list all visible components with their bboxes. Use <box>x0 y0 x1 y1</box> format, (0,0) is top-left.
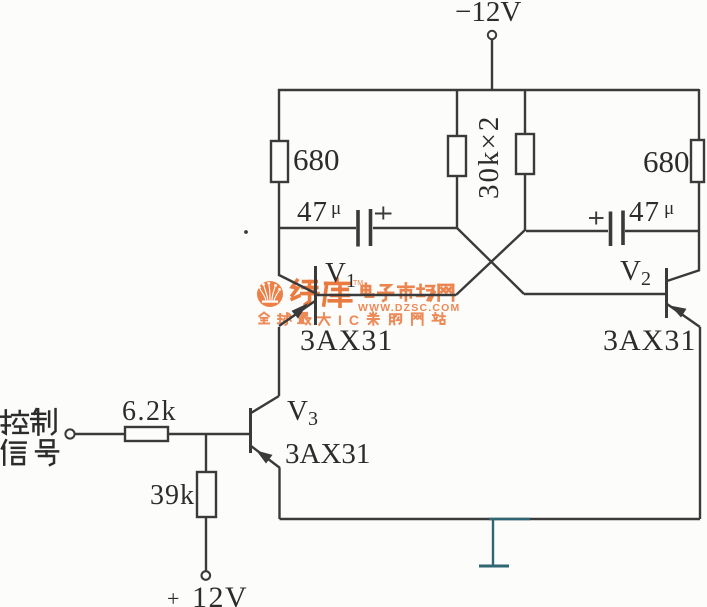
wire right vertical upper <box>698 89 700 140</box>
纬 <box>292 280 318 304</box>
wire V3 emitter down <box>278 468 280 519</box>
站 <box>433 313 445 324</box>
购 <box>390 314 401 324</box>
svg-text:+: + <box>167 586 179 607</box>
transistor V3 3AX31 <box>251 396 281 468</box>
wire 39k to +12V <box>205 517 207 571</box>
电 <box>362 284 373 297</box>
wire -12V feed <box>491 40 493 91</box>
大 <box>318 313 330 325</box>
wire right vertical mid <box>698 182 700 270</box>
terminal input <box>65 429 74 438</box>
terminal -12V <box>488 31 496 39</box>
watermark text 纬库 <box>292 279 351 306</box>
transistor V2 3AX31 <box>667 268 701 327</box>
wire cap left lead <box>279 227 356 229</box>
svg-text:−12V: −12V <box>455 0 521 28</box>
网 <box>439 285 453 301</box>
resistor 680 left <box>271 141 288 182</box>
svg-text:3AX31: 3AX31 <box>603 324 696 357</box>
wire 30k left lead bottom <box>456 176 458 229</box>
球 <box>278 313 291 325</box>
wire 30k right lead top <box>524 90 526 134</box>
全 <box>259 313 269 324</box>
svg-text:12V: 12V <box>192 581 248 607</box>
市 <box>398 283 413 300</box>
svg-text:V1: V1 <box>325 257 356 292</box>
wire cap left to node <box>373 227 457 229</box>
库 <box>324 279 351 306</box>
capacitor C1 47u left <box>356 210 360 247</box>
terminal +12V <box>202 571 211 580</box>
svg-text:μ: μ <box>664 198 674 219</box>
svg-text:30k×2: 30k×2 <box>473 115 505 199</box>
信 <box>2 440 26 464</box>
网 <box>412 313 423 324</box>
wire V2 emitter down right vertical <box>699 327 701 519</box>
wire cap right lead right <box>625 230 699 232</box>
svg-text:47: 47 <box>629 196 660 228</box>
watermark logo <box>257 281 283 307</box>
号 <box>36 440 58 465</box>
wire V1 emitter down <box>278 327 280 396</box>
ground <box>479 519 530 566</box>
svg-text:3AX31: 3AX31 <box>300 324 393 357</box>
wire top rail <box>278 89 699 91</box>
wire 30k right lead bottom <box>524 174 526 231</box>
wire V2 base <box>524 293 666 295</box>
wire V1 base <box>317 294 456 296</box>
wire left vertical mid <box>278 182 280 276</box>
transistor V1 3AX31 <box>279 266 316 326</box>
制 <box>31 409 55 435</box>
控 <box>1 410 28 433</box>
svg-text:V2: V2 <box>620 255 651 290</box>
capacitor C2 47u right <box>609 212 613 247</box>
wire input <box>75 433 125 435</box>
resistor 30k right <box>516 134 534 174</box>
wire cross diagonal right-to-left <box>456 230 525 295</box>
resistor 680 right <box>691 140 704 182</box>
label + right <box>589 212 604 225</box>
resistor 30k left <box>448 136 466 176</box>
wire left vertical upper <box>278 89 280 141</box>
wire 6.2k to V3 base <box>168 433 249 435</box>
svg-text:μ: μ <box>331 198 341 219</box>
wire bottom rail <box>280 518 701 520</box>
watermark slogan 全球最大IC采购网站 <box>259 312 445 328</box>
最 <box>298 313 310 324</box>
stray dot <box>244 230 248 234</box>
svg-text:3AX31: 3AX31 <box>285 438 370 470</box>
子 <box>378 285 393 301</box>
svg-text:6.2k: 6.2k <box>122 396 177 427</box>
svg-text:680: 680 <box>643 144 690 179</box>
采 <box>368 312 379 325</box>
wire junction down to 39k <box>205 434 207 472</box>
wire cross diagonal left-to-right <box>457 228 524 294</box>
svg-text:V3: V3 <box>287 395 318 430</box>
label 控制信号 control signal <box>1 409 58 465</box>
resistor 39k <box>197 472 216 517</box>
svg-text:680: 680 <box>293 142 340 177</box>
svg-text:47: 47 <box>297 196 328 228</box>
resistor 6.2k <box>125 427 168 441</box>
watermark text 电子市场网 <box>362 283 453 300</box>
wire 30k left lead top <box>456 90 458 136</box>
svg-text:39k: 39k <box>150 480 195 511</box>
wire cap right lead left <box>526 230 608 232</box>
label + left <box>375 207 392 220</box>
场 <box>417 285 434 301</box>
